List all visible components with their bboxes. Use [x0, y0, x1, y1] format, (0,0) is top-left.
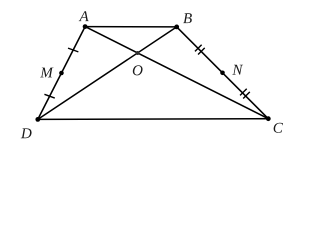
node O	[136, 51, 140, 55]
node N	[220, 71, 225, 76]
wire side BC	[177, 27, 269, 119]
node C	[266, 116, 271, 121]
wire side DC	[38, 118, 268, 121]
wire diagonal AC	[85, 27, 268, 119]
node B	[174, 25, 179, 30]
label O	[133, 65, 143, 75]
label M	[40, 68, 53, 78]
node D	[35, 117, 40, 122]
label N	[232, 65, 243, 75]
wire side AB	[85, 26, 177, 28]
double tick mark on NC	[240, 89, 250, 99]
label D	[21, 128, 32, 138]
label A	[79, 11, 89, 21]
wire diagonal BD	[38, 27, 177, 120]
label B	[183, 13, 192, 23]
double tick mark on BN	[195, 45, 205, 55]
tick mark on MD	[44, 94, 54, 98]
wire side AD	[38, 27, 85, 120]
node M	[59, 71, 64, 76]
label C	[274, 123, 283, 133]
node A	[83, 24, 88, 29]
tick mark on AM	[68, 48, 78, 52]
